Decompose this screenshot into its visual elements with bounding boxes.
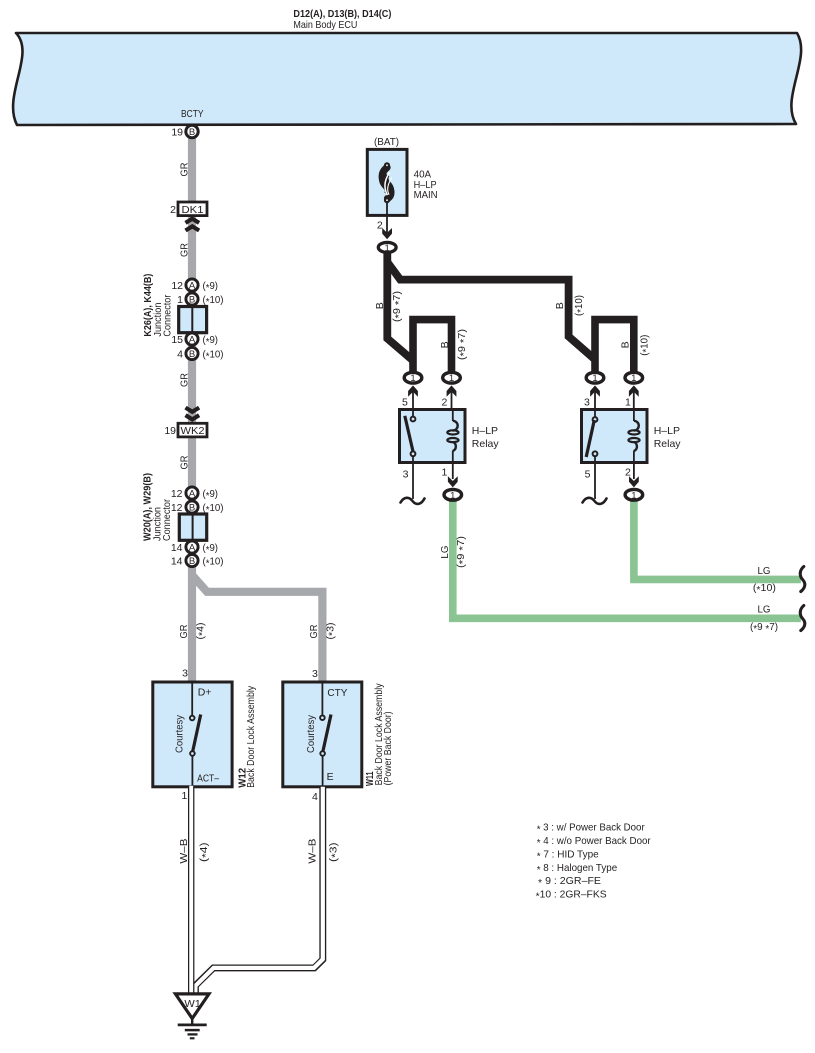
svg-text:B: B (374, 302, 386, 309)
svg-text:1: 1 (410, 373, 415, 384)
arrow up into oval (relay2 pin3) (590, 385, 600, 396)
svg-text:W–B: W–B (178, 839, 190, 864)
svg-text:GR: GR (308, 624, 320, 638)
Main Body ECU band (13, 33, 801, 125)
svg-text:(*10): (*10) (203, 556, 224, 570)
svg-text:5: 5 (402, 397, 408, 409)
svg-text:4: 4 (312, 791, 318, 803)
svg-text:1: 1 (450, 490, 455, 501)
arrow up into oval (relay2 pin1) (629, 385, 639, 396)
connector oval 1 (relay1 out) (444, 489, 462, 500)
arrow up into oval (relay1 pin5) (408, 385, 418, 396)
junction pin A (W20 pin 12) (186, 487, 198, 499)
svg-text:3: 3 (312, 668, 318, 680)
svg-text:* 8 : Halogen Type: * 8 : Halogen Type (537, 862, 618, 876)
svg-text:2: 2 (625, 467, 631, 479)
svg-text:Back Door Lock Assembly: Back Door Lock Assembly (245, 685, 257, 788)
connector oval 1 (relay1 pin5) (404, 372, 422, 383)
svg-text:19: 19 (164, 425, 176, 437)
connector DK1 (178, 202, 207, 216)
svg-text:3: 3 (182, 668, 188, 680)
wire B bridge relay 1 pins 5-2 (413, 320, 452, 373)
svg-text:(*9): (*9) (203, 542, 219, 556)
svg-text:B: B (189, 556, 195, 567)
svg-text:GR: GR (179, 455, 191, 469)
svg-text:H–LP: H–LP (472, 425, 498, 437)
svg-text:W1: W1 (184, 998, 201, 1010)
relay2 switch (594, 410, 596, 417)
svg-text:(*4): (*4) (195, 623, 209, 640)
connector oval 1 (relay2 pin3) (586, 372, 604, 383)
svg-text:(*9 *7): (*9 *7) (456, 329, 470, 360)
svg-text:(*9 *7): (*9 *7) (391, 291, 405, 322)
fuse 40A H-LP MAIN (367, 149, 407, 215)
connector oval 1 (relay2 out) (625, 489, 643, 500)
chevron marks below DK1 (186, 219, 200, 223)
break symbol (upper LG wire) (800, 567, 805, 592)
wire W-B from W11 pin 4 to ground junction (195, 787, 322, 995)
svg-text:Courtesy: Courtesy (174, 714, 186, 753)
connector WK2 (178, 423, 207, 437)
switch box W12 Back Door Lock Assembly (153, 682, 232, 787)
junction pin A (K26 pin 12) (186, 279, 198, 291)
wire GR branch to W11 (192, 575, 322, 682)
wire GR trunk ECU to W12 (188, 137, 196, 682)
continuation squiggle (relay2 pin5) (583, 498, 607, 504)
svg-text:(*9): (*9) (203, 280, 219, 294)
svg-text:2: 2 (377, 220, 383, 232)
break symbol (lower LG wire) (800, 606, 805, 631)
relay H-LP (right) (582, 410, 648, 463)
junction pin B (W29 pin 12) (186, 501, 198, 513)
chevron marks above WK2 (186, 408, 200, 412)
svg-text:1: 1 (631, 490, 636, 501)
svg-text:(*9): (*9) (203, 334, 219, 348)
svg-text:14: 14 (171, 556, 183, 568)
wire relay2 pin2 to oval (633, 463, 635, 480)
svg-text:Connector: Connector (161, 294, 173, 336)
wire B fuse feed (left branch to relay 1) (387, 252, 413, 361)
relay H-LP (left) (400, 410, 466, 463)
svg-text:LG: LG (439, 546, 451, 559)
svg-text:H–LP: H–LP (654, 425, 680, 437)
svg-text:Connector: Connector (161, 499, 173, 541)
connector oval 1 (fuse output) (378, 242, 396, 252)
svg-text:2: 2 (170, 204, 176, 216)
wire fuse to connector (386, 202, 388, 233)
svg-text:(*3): (*3) (325, 623, 339, 640)
svg-text:B: B (189, 294, 195, 305)
svg-text:B: B (189, 502, 195, 513)
wire B feed (right branch to relay 2) (387, 262, 595, 360)
svg-text:3: 3 (403, 469, 409, 481)
courtesy switch (W11) (321, 682, 323, 716)
svg-text:A: A (189, 334, 196, 345)
svg-text:CTY: CTY (327, 687, 347, 699)
svg-text:Main Body ECU: Main Body ECU (293, 19, 357, 31)
svg-text:Relay: Relay (472, 438, 500, 450)
svg-text:GR: GR (179, 162, 191, 176)
relay1 coil (452, 410, 454, 422)
svg-text:B: B (620, 341, 632, 348)
svg-text:(*9 *7): (*9 *7) (455, 536, 469, 568)
svg-text:4: 4 (177, 349, 183, 361)
svg-text:3: 3 (584, 397, 590, 409)
svg-text:BCTY: BCTY (181, 108, 204, 120)
svg-text:LG: LG (758, 565, 771, 577)
svg-text:(*9 *7): (*9 *7) (750, 621, 778, 635)
junction pin B (K44 pin 1) (186, 293, 198, 305)
svg-text:12: 12 (171, 488, 183, 500)
svg-text:1: 1 (592, 373, 597, 384)
svg-text:* 4 : w/o Power Back Door: * 4 : w/o Power Back Door (537, 835, 651, 849)
relay2 coil (633, 410, 635, 422)
svg-text:B: B (554, 302, 566, 309)
svg-text:(Power Back Door): (Power Back Door) (382, 711, 394, 785)
wire LG from relay1 pin1 (453, 500, 801, 618)
wire relay1 pin1 to oval (452, 463, 454, 480)
connector oval 1 (relay1 pin2) (443, 372, 461, 383)
junction pin A (W20 pin 14) (186, 541, 198, 553)
wire LG from relay2 pin2 (634, 500, 801, 579)
svg-text:GR: GR (179, 243, 191, 257)
svg-text:(*3): (*3) (327, 843, 341, 863)
svg-text:* 9 : 2GR–FE: * 9 : 2GR–FE (538, 875, 601, 889)
svg-text:1: 1 (625, 397, 631, 409)
svg-text:1: 1 (182, 790, 188, 802)
svg-text:19: 19 (171, 127, 183, 139)
ground stub (191, 1019, 193, 1026)
svg-text:(*10): (*10) (638, 335, 652, 356)
svg-text:A: A (189, 542, 196, 553)
svg-text:GR: GR (179, 373, 191, 387)
wire B bridge relay 2 pins 3-1 (595, 320, 634, 373)
svg-text:1: 1 (385, 243, 390, 254)
arrow down (fuse to oval) (382, 228, 392, 239)
connector pin B (ECU pin 19) (186, 125, 198, 137)
svg-text:15: 15 (171, 334, 183, 346)
svg-text:B: B (189, 349, 195, 360)
relay1 switch (412, 410, 414, 417)
svg-text:GR: GR (178, 624, 190, 638)
junction pin B (K44 pin 4) (186, 347, 198, 359)
svg-text:(*10): (*10) (753, 582, 776, 596)
svg-text:*10 : 2GR–FKS: *10 : 2GR–FKS (536, 889, 607, 903)
svg-text:(*9): (*9) (203, 488, 219, 502)
junction pin B (W29 pin 14) (186, 554, 198, 566)
svg-text:WK2: WK2 (181, 425, 205, 437)
courtesy switch (W12) (191, 682, 193, 716)
arrow down (relay2 pin2) (629, 476, 639, 487)
svg-text:5: 5 (585, 469, 591, 481)
svg-text:Relay: Relay (654, 438, 682, 450)
continuation squiggle (relay1 pin3) (401, 498, 425, 504)
svg-text:1: 1 (441, 467, 447, 479)
svg-text:1: 1 (631, 373, 636, 384)
svg-text:Courtesy: Courtesy (305, 714, 317, 753)
junction connector K26/K44 body (179, 307, 207, 333)
svg-text:2: 2 (441, 397, 447, 409)
junction connector W20/W29 body (179, 514, 206, 540)
svg-text:LG: LG (758, 604, 771, 616)
svg-text:A: A (189, 280, 196, 291)
svg-text:* 7 : HID Type: * 7 : HID Type (537, 848, 599, 862)
ground W1 triangle (175, 994, 209, 1019)
switch box W11 Back Door Lock Assembly (Power Back Door) (283, 682, 362, 787)
svg-text:A: A (189, 488, 196, 499)
svg-text:(*4): (*4) (198, 843, 212, 863)
svg-text:B: B (189, 127, 195, 138)
svg-text:14: 14 (171, 542, 183, 554)
junction pin A (K26 pin 15) (186, 333, 198, 345)
svg-text:DK1: DK1 (182, 204, 204, 216)
arrow down (relay1 pin1) (448, 476, 458, 487)
svg-text:MAIN: MAIN (414, 189, 438, 201)
svg-text:1: 1 (177, 294, 183, 306)
arrow up into oval (relay1 pin2) (447, 385, 457, 396)
wire W-B from W12 pin 1 to ground (188, 787, 194, 995)
svg-text:B: B (439, 341, 451, 348)
svg-text:W–B: W–B (307, 839, 319, 864)
svg-text:1: 1 (449, 373, 454, 384)
svg-text:E: E (327, 771, 334, 783)
svg-text:12: 12 (171, 280, 183, 292)
ground bars (178, 1024, 207, 1027)
svg-text:* 3 : w/ Power Back Door: * 3 : w/ Power Back Door (537, 822, 645, 836)
svg-text:(*10): (*10) (573, 295, 587, 316)
connector oval 1 (relay2 pin1) (625, 372, 643, 383)
svg-text:D+: D+ (198, 687, 212, 699)
svg-text:(BAT): (BAT) (374, 136, 399, 148)
svg-text:(*10): (*10) (203, 349, 224, 363)
svg-text:ACT–: ACT– (197, 773, 219, 785)
